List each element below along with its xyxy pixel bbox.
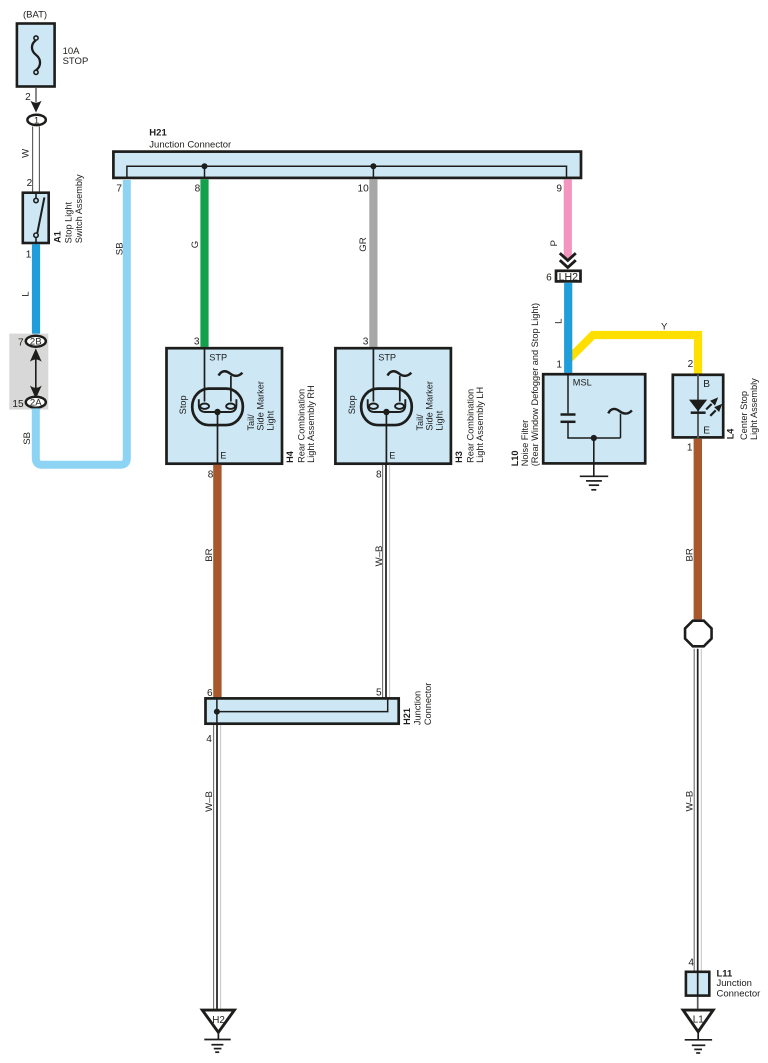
svg-text:Y: Y	[661, 321, 668, 332]
svg-text:(Rear Window Defogger and Stop: (Rear Window Defogger and Stop Light)	[530, 303, 540, 466]
svg-text:Junction: Junction	[413, 691, 423, 725]
svg-text:8: 8	[195, 184, 201, 195]
junction connector H21 (bottom bar)	[206, 698, 399, 725]
wire SB	[36, 180, 127, 465]
wire L11 to ground	[697, 997, 699, 1009]
label H21 Junction Connector (bottom)	[402, 683, 433, 725]
wire L (blue)	[32, 244, 40, 335]
connector LH2	[556, 271, 581, 284]
double arrow between 2B and 2A	[30, 348, 42, 398]
svg-text:2: 2	[25, 92, 31, 103]
svg-text:STOP: STOP	[63, 56, 89, 67]
svg-text:H21: H21	[149, 128, 167, 139]
ground (L10)	[580, 476, 608, 490]
junction connector H21 (top bar)	[113, 152, 581, 179]
svg-text:Tail/: Tail/	[246, 414, 256, 431]
svg-text:Stop: Stop	[347, 395, 357, 414]
wire P (pink)	[564, 179, 572, 259]
wire G (green)	[200, 179, 208, 347]
svg-text:3: 3	[194, 336, 200, 347]
svg-text:SB: SB	[114, 242, 125, 255]
svg-text:7: 7	[116, 184, 122, 195]
wire W-B (from H3)	[383, 465, 390, 697]
svg-text:B: B	[703, 379, 710, 390]
svg-text:LH2: LH2	[559, 271, 579, 283]
label A1 Stop Light Switch Assembly	[53, 174, 84, 243]
svg-text:7: 7	[18, 338, 24, 349]
svg-text:Rear Combination: Rear Combination	[296, 389, 306, 463]
wire W-B (right)	[694, 649, 701, 971]
label H4 Rear Combination Light Assembly RH	[285, 385, 316, 463]
svg-text:STP: STP	[209, 352, 227, 362]
svg-text:L: L	[554, 318, 565, 324]
svg-text:1: 1	[556, 360, 562, 371]
svg-text:(BAT): (BAT)	[23, 10, 47, 21]
connector 1 oval	[27, 115, 45, 126]
label H3 Rear Combination Light Assembly LH	[454, 387, 485, 463]
svg-text:Side Marker: Side Marker	[425, 381, 435, 431]
svg-text:2A: 2A	[30, 398, 42, 409]
svg-text:2B: 2B	[30, 337, 42, 348]
svg-text:4: 4	[206, 734, 212, 745]
arrow into connector 1	[30, 101, 41, 113]
wire BR (left)	[213, 465, 221, 697]
svg-text:SB: SB	[22, 432, 33, 445]
svg-text:9: 9	[556, 184, 562, 195]
svg-text:Noise Filter: Noise Filter	[520, 420, 530, 466]
ground L1	[683, 1010, 713, 1053]
wire fuse to connector 1	[35, 88, 37, 102]
connector 2A oval	[26, 397, 46, 409]
in-line connector gray block	[9, 334, 48, 410]
svg-text:Junction: Junction	[717, 978, 752, 989]
svg-text:1: 1	[687, 443, 693, 454]
wire BR (right)	[694, 439, 702, 620]
svg-text:H3: H3	[454, 451, 464, 463]
svg-text:W: W	[21, 148, 32, 158]
svg-text:Tail/: Tail/	[415, 414, 425, 431]
svg-text:8: 8	[208, 469, 214, 480]
svg-text:10: 10	[357, 184, 369, 195]
svg-text:2: 2	[27, 178, 33, 189]
wire GR (gray)	[369, 179, 377, 347]
wire W-B (bottom left)	[214, 725, 221, 1009]
splice octagon	[685, 621, 712, 647]
connector 2B oval	[26, 336, 46, 348]
ground H2	[202, 1010, 234, 1052]
svg-text:H2: H2	[212, 1015, 225, 1026]
svg-text:4: 4	[688, 958, 694, 969]
svg-text:BR: BR	[204, 548, 215, 561]
svg-text:BR: BR	[684, 548, 695, 561]
svg-text:5: 5	[376, 688, 382, 699]
svg-text:E: E	[703, 426, 710, 437]
svg-text:E: E	[389, 450, 395, 460]
center stop light L4	[673, 375, 723, 439]
wire L10 to ground	[593, 438, 595, 476]
svg-text:Light Assembly: Light Assembly	[749, 378, 759, 440]
svg-text:1: 1	[26, 250, 32, 261]
svg-text:6: 6	[546, 272, 552, 283]
svg-text:W–B: W–B	[684, 791, 695, 812]
svg-text:W–B: W–B	[204, 791, 215, 812]
svg-text:Rear Combination: Rear Combination	[465, 389, 475, 463]
rear combination light H3	[335, 347, 451, 465]
label L10 Noise Filter	[510, 303, 540, 466]
svg-text:P: P	[549, 240, 560, 246]
svg-text:Connector: Connector	[423, 683, 433, 725]
svg-text:3: 3	[363, 336, 369, 347]
label L11 Junction Connector	[717, 968, 761, 999]
svg-text:1: 1	[34, 115, 39, 125]
svg-text:Light: Light	[265, 410, 275, 430]
svg-text:MSL: MSL	[573, 378, 592, 388]
svg-text:Stop: Stop	[178, 395, 188, 414]
svg-text:Switch Assembly: Switch Assembly	[74, 174, 84, 243]
svg-text:Side Marker: Side Marker	[256, 381, 266, 431]
label L4 Center Stop Light Assembly	[725, 378, 759, 440]
svg-text:H4: H4	[285, 450, 295, 463]
svg-text:E: E	[220, 450, 226, 460]
wire Y (yellow)	[569, 335, 699, 374]
svg-text:15: 15	[12, 399, 24, 410]
svg-text:L: L	[21, 291, 32, 297]
svg-text:W–B: W–B	[374, 546, 385, 567]
svg-text:STP: STP	[378, 352, 396, 362]
svg-text:L10: L10	[510, 450, 520, 466]
svg-text:H21: H21	[402, 708, 412, 725]
noise filter L10	[543, 374, 645, 463]
svg-text:G: G	[190, 241, 201, 248]
svg-text:GR: GR	[358, 237, 369, 251]
svg-text:Connector: Connector	[717, 988, 761, 999]
wire L (blue, right)	[564, 283, 572, 373]
double chevron arrow into LH2	[560, 253, 576, 267]
svg-text:Stop Light: Stop Light	[64, 201, 74, 243]
svg-text:Light: Light	[434, 410, 444, 430]
svg-text:L1: L1	[693, 1015, 704, 1026]
rear combination light H4	[167, 347, 283, 465]
svg-text:Light Assembly LH: Light Assembly LH	[475, 387, 485, 463]
svg-text:Light Assembly RH: Light Assembly RH	[306, 385, 316, 463]
wire W	[33, 126, 40, 191]
svg-text:A1: A1	[53, 231, 63, 243]
switch A1	[23, 192, 49, 245]
svg-text:L4: L4	[725, 428, 735, 440]
svg-text:8: 8	[376, 469, 382, 480]
junction connector L11	[686, 971, 709, 997]
svg-text:Junction Connector: Junction Connector	[149, 139, 231, 150]
svg-text:2: 2	[688, 359, 694, 370]
svg-text:Center Stop: Center Stop	[739, 391, 749, 440]
fuse 10A STOP	[17, 24, 55, 87]
